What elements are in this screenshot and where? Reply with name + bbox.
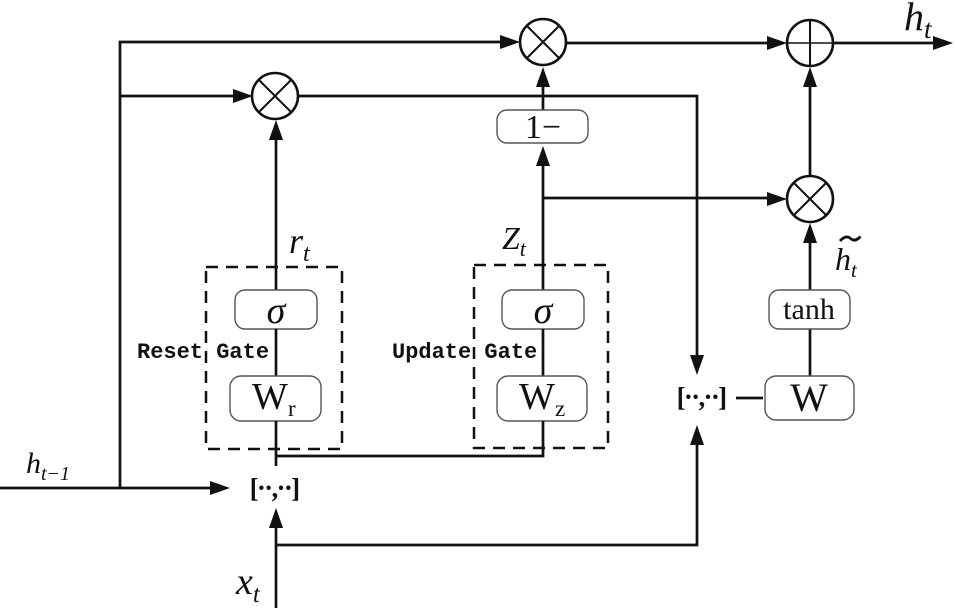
wire Z line from sigma up into box 1- xyxy=(542,164,545,290)
wire M3 up into A1 xyxy=(809,85,812,176)
box sigma (reset) xyxy=(235,290,317,332)
box W xyxy=(765,375,854,420)
svg-text:σ: σ xyxy=(534,290,554,332)
wire W up to tanh xyxy=(809,329,812,376)
dashed box Reset Gate xyxy=(206,267,342,449)
wire tanh up into M3 xyxy=(809,241,812,290)
svg-text:Update Gate: Update Gate xyxy=(392,340,537,365)
wire h_(t-1) input arrow into C1 xyxy=(0,487,212,490)
multiplier M2 xyxy=(252,73,298,119)
svg-text:W: W xyxy=(790,375,828,420)
box W_z xyxy=(497,376,587,421)
wire sigma to W_z xyxy=(542,329,545,376)
svg-text:r: r xyxy=(288,396,296,421)
multiplier M1 xyxy=(520,19,566,65)
wire from box 1- up into M1 xyxy=(542,85,545,110)
wire r_t from sigma up into M2 xyxy=(275,137,278,290)
wire M2 output right then down to concat node C2 xyxy=(298,96,697,357)
multiplier M3 xyxy=(787,176,833,222)
box tanh xyxy=(769,290,850,329)
svg-text:z: z xyxy=(555,396,565,421)
wire top-left corner from h_(t-1) vertical up to top row xyxy=(120,42,502,489)
wire connector from C1 stem right to W_z bottom xyxy=(276,421,543,456)
svg-text:[··,··]: [··,··] xyxy=(250,473,299,503)
adder A1 xyxy=(787,20,833,66)
wire A1 to output h_t xyxy=(833,42,936,45)
box sigma (update) xyxy=(502,290,584,332)
box 1- xyxy=(497,109,588,146)
box W_r xyxy=(230,376,321,421)
svg-text:Reset Gate: Reset Gate xyxy=(137,340,269,365)
dashed box Update Gate xyxy=(474,265,608,448)
wire concat C2 to W xyxy=(736,397,763,400)
svg-text:σ: σ xyxy=(267,290,287,332)
wire M1 to A1 xyxy=(566,42,770,45)
wire branch from Z line right into M3 xyxy=(543,197,770,200)
wire x_t branch right and up into C2 xyxy=(276,443,697,545)
svg-text:[··,··]: [··,··] xyxy=(677,382,726,412)
svg-text:tanh: tanh xyxy=(783,293,835,326)
svg-text:1−: 1− xyxy=(525,109,561,146)
wire row2 into multiplier M2 xyxy=(120,95,236,98)
wire arrow into multiplier M1 xyxy=(500,35,520,49)
wire sigma to W_r xyxy=(275,329,278,376)
svg-text:W: W xyxy=(519,376,555,418)
wire x_t up into C1 xyxy=(275,526,278,608)
svg-text:W: W xyxy=(252,376,288,418)
wire W_r down toward concat C1 xyxy=(275,421,278,466)
